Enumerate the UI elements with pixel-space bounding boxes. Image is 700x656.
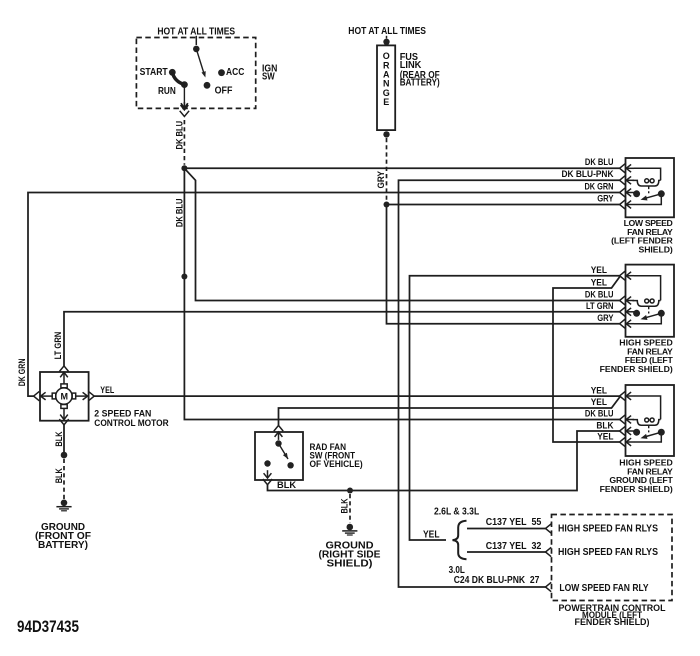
svg-text:DK BLU-PNK: DK BLU-PNK [562,169,614,180]
svg-text:DK BLU: DK BLU [174,198,185,227]
svg-text:LT GRN: LT GRN [586,301,614,312]
svg-text:BLK: BLK [340,498,351,513]
svg-text:DK GRN: DK GRN [17,359,28,387]
svg-text:GRY: GRY [597,313,614,324]
svg-text:LT GRN: LT GRN [53,332,64,360]
svg-text:SHIELD): SHIELD) [327,559,373,570]
svg-text:DK BLU: DK BLU [585,409,614,420]
svg-text:BATTERY): BATTERY) [38,540,88,551]
svg-text:HIGH SPEED FAN RLYS: HIGH SPEED FAN RLYS [558,524,658,535]
svg-text:YEL: YEL [591,397,607,408]
svg-text:YEL: YEL [423,529,440,540]
svg-text:CONTROL MOTOR: CONTROL MOTOR [94,418,169,428]
svg-text:YEL: YEL [100,385,114,395]
svg-text:LOW SPEED FAN RLY: LOW SPEED FAN RLY [559,583,648,594]
svg-text:C137 YEL 32: C137 YEL 32 [486,541,542,552]
svg-text:DK GRN: DK GRN [585,182,614,193]
svg-text:BLK: BLK [54,431,65,446]
svg-text:2 SPEED FAN: 2 SPEED FAN [94,409,151,419]
svg-text:YEL: YEL [591,277,607,288]
svg-text:DK BLU: DK BLU [585,157,614,168]
svg-text:HOT AT ALL TIMES: HOT AT ALL TIMES [157,26,235,37]
svg-text:OF VEHICLE): OF VEHICLE) [310,459,363,469]
svg-text:FENDER SHIELD): FENDER SHIELD) [600,484,673,494]
svg-text:SW: SW [262,71,275,82]
svg-text:BLK: BLK [277,480,297,490]
svg-text:C137 YEL 55: C137 YEL 55 [486,517,542,528]
svg-text:YEL: YEL [591,265,607,276]
svg-text:START: START [140,67,168,78]
svg-text:SHIELD): SHIELD) [639,244,673,254]
svg-text:BLK: BLK [596,420,613,431]
svg-text:M: M [60,391,68,401]
svg-text:C24 DK BLU-PNK 27: C24 DK BLU-PNK 27 [454,575,540,586]
svg-text:DK BLU: DK BLU [174,121,185,150]
svg-text:YEL: YEL [591,385,607,396]
svg-text:BATTERY): BATTERY) [400,78,440,89]
svg-text:BLK: BLK [54,468,65,483]
svg-text:HIGH SPEED FAN RLYS: HIGH SPEED FAN RLYS [558,547,658,558]
svg-text:94D37435: 94D37435 [17,617,79,636]
svg-text:GRY: GRY [597,194,614,205]
svg-text:ACC: ACC [226,67,244,78]
svg-text:DK BLU: DK BLU [585,290,614,301]
svg-text:2.6L & 3.3L: 2.6L & 3.3L [434,507,479,518]
svg-text:YEL: YEL [597,431,613,442]
svg-text:HOT AT ALL TIMES: HOT AT ALL TIMES [348,26,426,37]
svg-text:FENDER SHIELD): FENDER SHIELD) [575,617,650,628]
svg-text:OFF: OFF [215,86,233,97]
svg-text:E: E [383,97,389,107]
svg-text:GRY: GRY [376,170,387,188]
svg-text:RUN: RUN [158,86,176,97]
svg-text:FENDER SHIELD): FENDER SHIELD) [600,364,673,374]
